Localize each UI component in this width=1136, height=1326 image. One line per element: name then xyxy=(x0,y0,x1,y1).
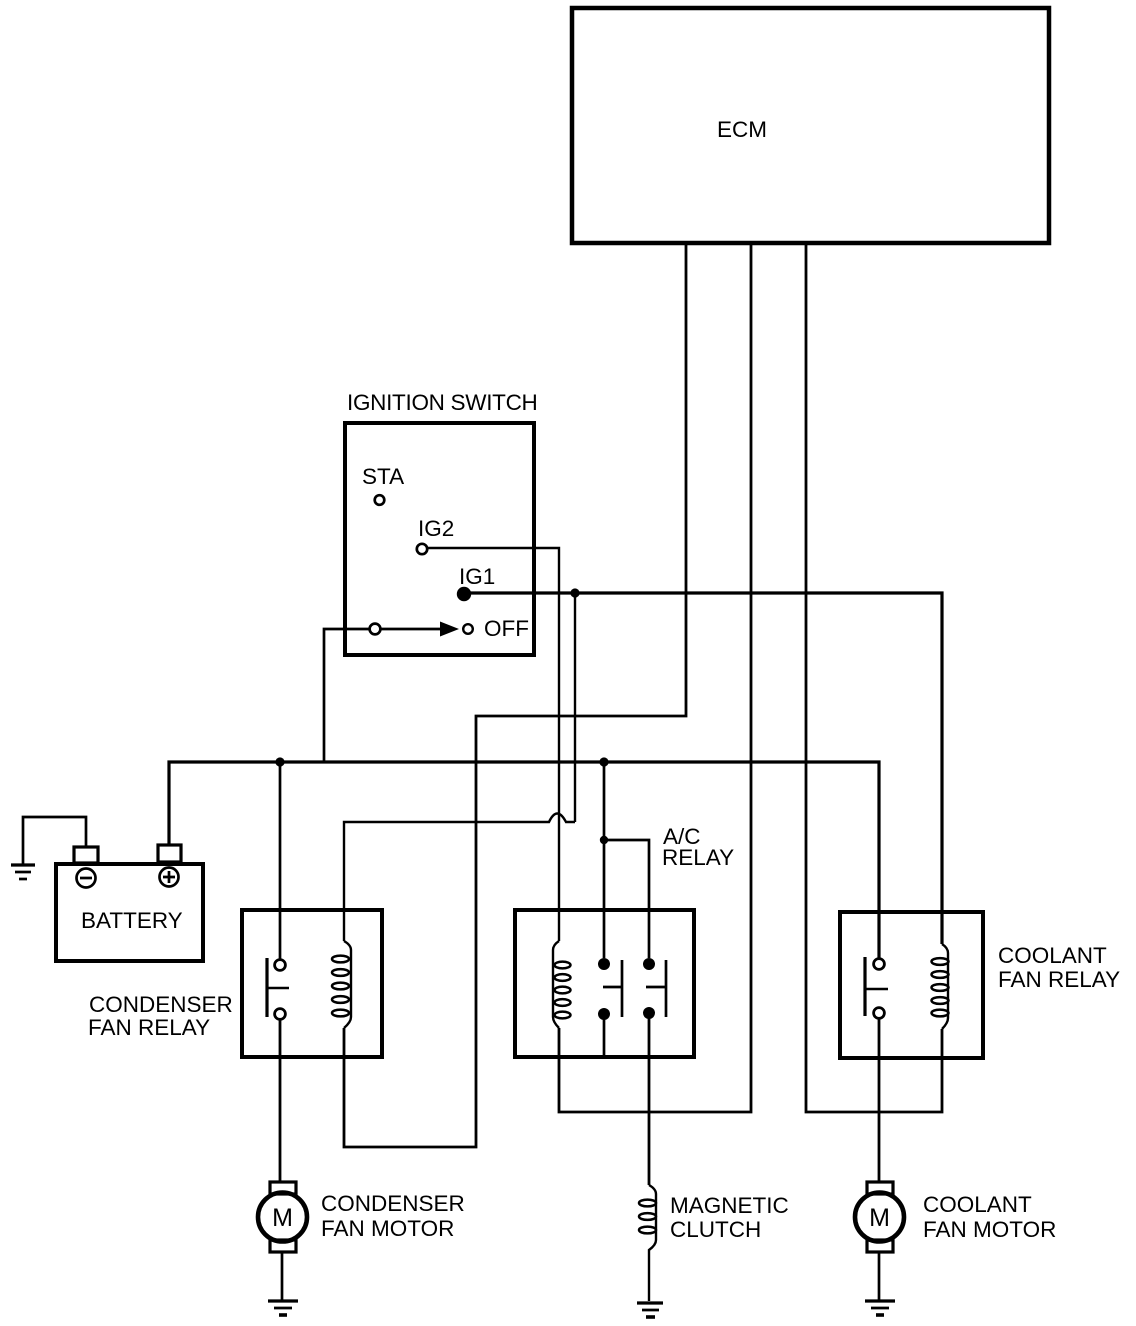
condenser fan relay K1 box xyxy=(88,910,382,1057)
wire A/C contact B to magnetic clutch xyxy=(648,1013,651,1185)
svg-text:IG1: IG1 xyxy=(459,564,495,589)
wire IG1 bus to coolant fan relay coil top xyxy=(464,593,942,944)
node A/C branch junction xyxy=(600,836,608,844)
condenser fan motor M1 xyxy=(258,1182,307,1252)
coolant fan relay K3 box xyxy=(840,912,1120,1058)
ground G4 (coolant fan motor) xyxy=(865,1301,895,1315)
svg-text:FAN RELAY: FAN RELAY xyxy=(88,1015,210,1040)
coolant fan relay contact xyxy=(865,957,888,1018)
coolant fan motor M2 xyxy=(855,1182,904,1252)
ignition switch S1 box xyxy=(345,390,538,655)
node bus junction x=604 xyxy=(599,757,608,766)
svg-text:RELAY: RELAY xyxy=(662,845,734,870)
wire coolant relay contact to motor xyxy=(878,1018,881,1181)
condenser fan relay contact xyxy=(267,958,289,1019)
A/C relay coil L2 xyxy=(553,941,571,1028)
svg-text:CLUTCH: CLUTCH xyxy=(670,1217,761,1242)
svg-text:OFF: OFF xyxy=(484,616,529,641)
wire bus to A/C relay contact A xyxy=(603,762,606,958)
svg-text:M: M xyxy=(272,1204,293,1232)
wire y=822 to condenser relay coil (hop over IG2 wire) xyxy=(344,814,575,942)
wire battery positive bus y=762 xyxy=(169,762,879,958)
wire IG2 to A/C relay coil top xyxy=(428,548,559,941)
svg-text:COOLANT: COOLANT xyxy=(923,1192,1032,1217)
svg-text:CONDENSER: CONDENSER xyxy=(321,1191,465,1216)
ECM U1 xyxy=(572,8,1049,243)
svg-text:CONDENSER: CONDENSER xyxy=(89,992,233,1017)
node bus junction x=280 xyxy=(275,757,284,766)
svg-text:ECM: ECM xyxy=(717,117,767,142)
svg-text:FAN MOTOR: FAN MOTOR xyxy=(321,1216,454,1241)
wire IG1 junction down to y=822 xyxy=(574,593,576,822)
svg-text:IG2: IG2 xyxy=(418,516,454,541)
A/C relay contact B xyxy=(643,958,666,1019)
svg-text:FAN RELAY: FAN RELAY xyxy=(998,967,1120,992)
ground G2 (condenser fan motor) xyxy=(268,1301,298,1315)
A/C relay contact A xyxy=(598,958,622,1057)
wire ECM pin1 to condenser fan relay coil (via x=476) xyxy=(344,245,686,1147)
ground G3 (magnetic clutch) xyxy=(637,1303,663,1317)
battery BT1 xyxy=(56,845,203,961)
wire ECM pin2 to A/C relay coil bottom xyxy=(559,245,751,1112)
wire ECM pin3 to coolant fan relay coil bottom xyxy=(806,245,942,1112)
svg-text:MAGNETIC: MAGNETIC xyxy=(670,1193,789,1218)
terminal IG2 xyxy=(417,516,454,554)
svg-text:COOLANT: COOLANT xyxy=(998,943,1107,968)
svg-text:BATTERY: BATTERY xyxy=(81,908,183,933)
svg-text:STA: STA xyxy=(362,464,404,489)
wire branch to A/C relay contact B xyxy=(604,840,649,958)
wire condenser relay contact to motor xyxy=(279,1019,282,1181)
terminal IG1 xyxy=(457,564,495,601)
wire coolant motor to ground xyxy=(878,1252,881,1301)
magnetic clutch coil L4 xyxy=(639,1185,656,1301)
ground G1 (battery) xyxy=(11,817,86,879)
svg-text:IGNITION SWITCH: IGNITION SWITCH xyxy=(347,390,538,415)
node IG1 junction xyxy=(570,588,579,597)
terminal STA xyxy=(362,464,404,505)
wire bus to condenser relay contact xyxy=(279,762,282,959)
A/C relay K2 box xyxy=(515,824,734,1057)
condenser fan relay coil L1 xyxy=(332,941,351,1028)
terminal OFF with selector arrow xyxy=(370,616,529,641)
svg-text:FAN MOTOR: FAN MOTOR xyxy=(923,1217,1056,1242)
coolant fan relay coil L3 xyxy=(932,944,949,1029)
wire condenser motor to ground xyxy=(281,1252,284,1301)
wire OFF terminal to battery bus xyxy=(324,629,370,762)
svg-text:M: M xyxy=(869,1204,890,1232)
